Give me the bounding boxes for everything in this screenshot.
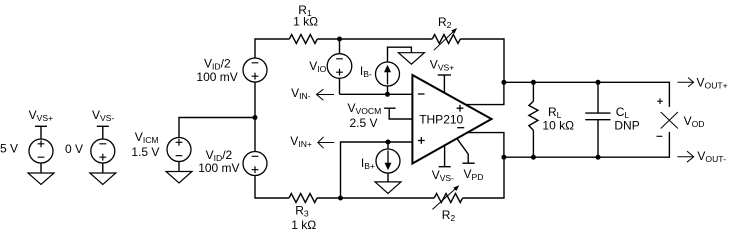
svg-text:VVS-: VVS- <box>432 168 454 183</box>
svg-text:1 kΩ: 1 kΩ <box>293 14 318 28</box>
svg-text:THP210: THP210 <box>419 112 463 126</box>
svg-text:VVS+: VVS+ <box>430 57 455 72</box>
svg-text:VPD: VPD <box>464 167 484 182</box>
svg-text:VOUT+: VOUT+ <box>697 76 728 91</box>
svg-text:R3: R3 <box>295 204 309 219</box>
svg-text:VVS-: VVS- <box>92 108 114 123</box>
svg-text:100 mV: 100 mV <box>196 70 237 84</box>
svg-text:VVS+: VVS+ <box>29 108 53 123</box>
svg-text:2.5 V: 2.5 V <box>350 116 378 130</box>
svg-text:DNP: DNP <box>614 119 639 133</box>
svg-text:1.5 V: 1.5 V <box>131 145 159 159</box>
svg-text:VIN+: VIN+ <box>290 134 312 149</box>
svg-text:5 V: 5 V <box>0 142 18 156</box>
svg-text:1 kΩ: 1 kΩ <box>291 218 316 232</box>
svg-text:100 mV: 100 mV <box>198 161 239 175</box>
svg-text:VIN-: VIN- <box>291 86 311 101</box>
svg-text:VVOCM: VVOCM <box>348 101 382 116</box>
svg-text:VOUT-: VOUT- <box>697 149 726 164</box>
svg-text:R2: R2 <box>438 15 452 30</box>
svg-text:IB-: IB- <box>360 64 372 79</box>
svg-text:VOD: VOD <box>684 114 705 129</box>
svg-text:10 kΩ: 10 kΩ <box>542 119 574 133</box>
svg-text:IB+: IB+ <box>361 156 375 171</box>
svg-text:VICM: VICM <box>135 130 159 145</box>
svg-text:VIO: VIO <box>309 59 326 74</box>
svg-text:R2: R2 <box>442 208 456 223</box>
svg-text:0 V: 0 V <box>65 142 83 156</box>
